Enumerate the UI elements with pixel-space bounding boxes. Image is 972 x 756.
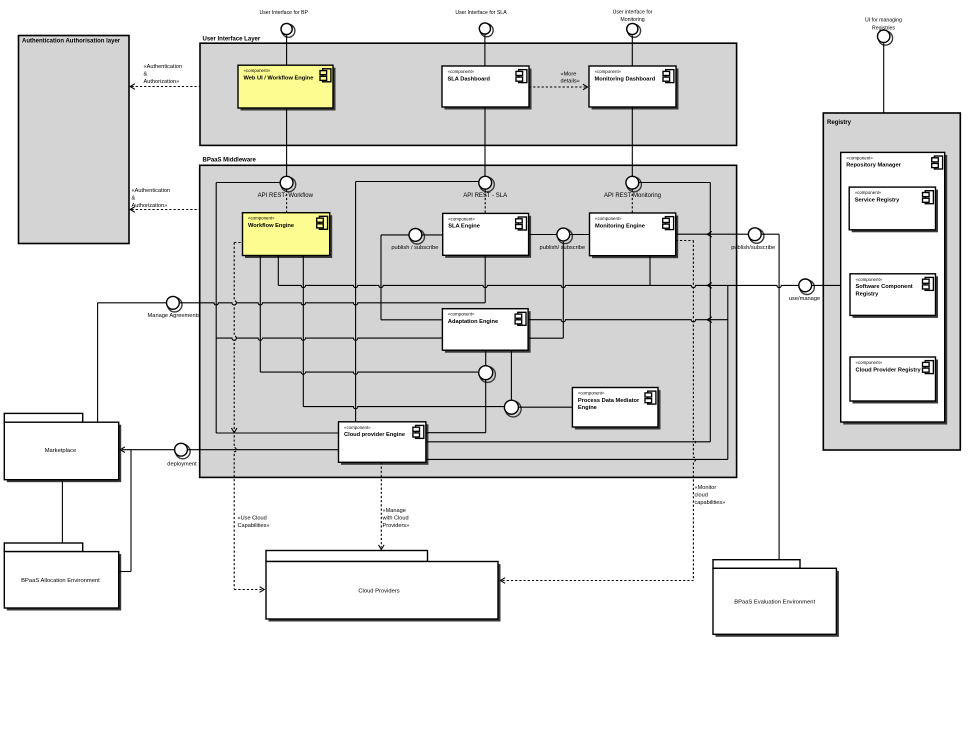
interface ball UI for managing Registries: [878, 30, 893, 45]
wire Web UI to API REST-Workflow: [286, 108, 288, 176]
svg-text:User interface for: User interface for: [613, 10, 653, 16]
svg-text:Authorization»: Authorization»: [144, 79, 180, 85]
wire dashed API REST-SLA to SLA Engine: [484, 190, 486, 214]
svg-text:«component»: «component»: [856, 277, 883, 282]
svg-text:«Authentication: «Authentication: [132, 188, 171, 194]
svg-text:cloud: cloud: [695, 493, 708, 499]
component Process Data Mediator Engine: [572, 388, 660, 430]
component Monitoring Dashboard: [589, 66, 679, 110]
wire publish/subscribe right ball to BPaaS Evaluation Environment: [761, 233, 779, 235]
svg-text:«component»: «component»: [448, 312, 475, 317]
wire deployment branch down to BPaaS Allocation Environment: [130, 450, 132, 572]
wire Monitoring Engine right to publish/subscribe right ball: [676, 233, 749, 235]
wire dashed API REST-Monitoring to Monitoring Engine: [631, 190, 633, 214]
svg-text:User Interface for BP: User Interface for BP: [259, 10, 308, 16]
interface ball Manage Agreements: [167, 296, 183, 312]
wire Monitoring Engine bottom to row A: [649, 256, 651, 286]
wire UI-Monitoring stem: [631, 35, 633, 66]
wire UI-Registries stem: [883, 43, 885, 113]
interface ball API REST- Workflow: [280, 176, 296, 192]
wire dashed Cloud provider Engine Manage with Cloud Providers: [380, 462, 382, 547]
component Cloud Provider Registry: [850, 357, 938, 404]
svg-text:SLA Engine: SLA Engine: [448, 224, 480, 230]
svg-text:BPaaS Evaluation Environment: BPaaS Evaluation Environment: [734, 600, 815, 606]
wire SLA Dashboard to API REST-SLA: [484, 107, 486, 176]
wire dashed Workflow Engine Use Cloud Capabilities: [234, 242, 242, 244]
wire branch to Adaptation Engine left (from x216): [216, 338, 442, 340]
svg-text:Capabilities»: Capabilities»: [238, 523, 270, 529]
svg-text:«More: «More: [561, 72, 577, 78]
package Marketplace: [4, 413, 121, 482]
interface ball publish / subscribe left: [409, 229, 425, 245]
component Workflow Engine: [243, 213, 333, 258]
wire pub-sub-left ball to SLA Engine: [422, 234, 443, 236]
interface ball API REST-Monitoring: [626, 176, 642, 192]
svg-text:Registry: Registry: [856, 291, 880, 297]
svg-text:with Cloud: with Cloud: [382, 516, 409, 522]
svg-text:Workflow Engine: Workflow Engine: [248, 223, 294, 229]
svg-text:«component»: «component»: [344, 425, 371, 430]
svg-text:UI for managing: UI for managing: [865, 18, 902, 24]
svg-text:«component»: «component»: [595, 216, 622, 221]
svg-text:details»: details»: [561, 79, 580, 85]
wire adaptation ball down to Cloud provider Engine right: [485, 380, 487, 433]
wire dashed Monitoring Engine Monitor cloud capabilities: [676, 240, 694, 242]
wire row A Workflow Engine to use/manage: [277, 256, 279, 286]
svg-text:«component»: «component»: [578, 391, 605, 396]
svg-text:«component»: «component»: [595, 69, 622, 74]
svg-text:Software Component: Software Component: [856, 284, 913, 290]
package BPaaS Evaluation Environment: [713, 560, 839, 637]
wire deployment ball left to Marketplace with arrow: [122, 449, 175, 451]
svg-text:«Manage: «Manage: [383, 508, 406, 514]
interface ball UI for SLA: [479, 23, 493, 37]
wire branch x381 pub-sub-left down to Adaptation Engine left: [380, 235, 382, 320]
interface ball left of Process Data Mediator Engine: [510, 350, 512, 399]
svg-text:Authorization»: Authorization»: [132, 203, 168, 209]
wire SLA Engine to pub-sub-mid ball: [529, 234, 557, 236]
container Registry: [823, 113, 960, 450]
interface ball adaptation lower ball: [479, 366, 496, 383]
svg-text:Providers»: Providers»: [383, 523, 410, 529]
svg-text:Marketplace: Marketplace: [45, 448, 77, 454]
wire Marketplace to BPaaS Allocation Environment: [61, 480, 63, 543]
interface ball API REST - SLA: [479, 176, 495, 192]
svg-text:Authentication Authorisation l: Authentication Authorisation layer: [22, 39, 121, 45]
wire API REST-Workflow to Cloud provider Engine (left path): [216, 182, 280, 184]
svg-text:SLA Dashboard: SLA Dashboard: [448, 76, 491, 82]
component SLA Engine: [443, 213, 531, 257]
svg-text:«component»: «component»: [448, 69, 475, 74]
svg-text:«component»: «component»: [856, 360, 883, 365]
wire UI-BP stem: [286, 35, 288, 65]
svg-text:publish / subscribe: publish / subscribe: [391, 245, 438, 251]
wire UI-SLA stem: [484, 35, 486, 66]
interface ball UI for BP: [281, 23, 295, 37]
svg-text:Monitoring Dashboard: Monitoring Dashboard: [595, 76, 656, 82]
wire mediator ball to Process Data Mediator Engine: [519, 406, 573, 408]
wire dashed More details dependency: [529, 86, 586, 88]
svg-text:publish/ subscribe: publish/ subscribe: [540, 245, 586, 251]
svg-text:deployment: deployment: [167, 462, 197, 468]
wire API REST - SLA to Cloud provider Engine top: [356, 181, 479, 183]
wire dashed API REST-Workflow to Workflow Engine: [286, 190, 288, 213]
package Cloud Providers: [266, 551, 501, 622]
wire dashed auth dependency lower: [132, 209, 200, 211]
interface ball publish/subscribe right: [748, 228, 764, 244]
wire dashed auth dependency upper: [132, 86, 200, 88]
svg-text:Monitoring: Monitoring: [620, 17, 644, 23]
svg-text:API REST- Workflow: API REST- Workflow: [258, 193, 314, 199]
wire API REST-Monitoring to Cloud provider Engine (right path): [639, 182, 711, 184]
component Software Component Registry: [850, 274, 938, 318]
wire Adaptation Engine right to x727 vertical (row D): [528, 320, 728, 322]
svg-text:BPaaS Allocation Environment: BPaaS Allocation Environment: [21, 578, 100, 584]
svg-text:«Use Cloud: «Use Cloud: [238, 516, 267, 522]
wire pub-sub-left ball left segment: [381, 234, 409, 236]
svg-text:User Interface Layer: User Interface Layer: [203, 37, 261, 43]
package BPaaS Allocation Environment: [4, 543, 121, 611]
component Cloud provider Engine: [339, 422, 429, 465]
container Authentication Authorisation layer: [19, 36, 130, 244]
svg-text:Service Registry: Service Registry: [855, 197, 900, 203]
svg-text:publish/subscribe: publish/subscribe: [731, 245, 775, 251]
wire use/manage ball to Repository Manager: [812, 284, 841, 286]
wire pub-sub-mid ball to Monitoring Engine: [570, 234, 590, 236]
svg-text:use/manage: use/manage: [789, 296, 820, 302]
interface ball deployment: [175, 443, 191, 459]
interface ball use/manage: [799, 279, 815, 295]
interface ball mediator ball: [504, 400, 521, 417]
component Web UI / Workflow Engine U1: [238, 65, 336, 110]
svg-text:Monitoring Engine: Monitoring Engine: [595, 223, 645, 229]
svg-text:capabilities»: capabilities»: [695, 500, 726, 506]
wire Manage Agreements ball left to Marketplace: [98, 302, 167, 304]
component Adaptation Engine: [442, 309, 530, 353]
component Repository Manager: [841, 152, 948, 424]
svg-text:Engine: Engine: [578, 405, 597, 411]
svg-text:&: &: [144, 72, 148, 78]
svg-text:BPaaS Middleware: BPaaS Middleware: [203, 158, 257, 164]
wire Workflow Engine bottom to mediator ball (x303): [302, 256, 304, 407]
wire row B Manage Agreements to SLA Engine: [179, 303, 485, 305]
svg-text:User Interface for SLA: User Interface for SLA: [455, 10, 507, 16]
component Monitoring Engine: [590, 213, 679, 258]
svg-text:«component»: «component»: [248, 216, 275, 221]
wire deployment ball to Cloud provider Engine: [188, 449, 339, 451]
svg-text:Adaptation Engine: Adaptation Engine: [448, 319, 498, 325]
svg-text:Cloud provider Engine: Cloud provider Engine: [344, 432, 405, 438]
svg-text:«component»: «component»: [855, 190, 882, 195]
component SLA Dashboard: [442, 66, 532, 110]
svg-text:&: &: [132, 196, 136, 202]
interface ball below Adaptation Engine: [485, 350, 487, 365]
svg-text:Manage Agreements: Manage Agreements: [148, 313, 201, 319]
svg-text:Repository Manager: Repository Manager: [846, 163, 901, 169]
wire pub-sub-mid down to Adaptation Engine right: [562, 242, 564, 338]
svg-text:Cloud Providers: Cloud Providers: [358, 589, 399, 595]
svg-text:«Authentication: «Authentication: [144, 64, 183, 70]
wire row A branch down x727 to Cloud provider Engine right: [727, 285, 729, 459]
svg-text:«component»: «component»: [244, 68, 271, 73]
interface ball UI for Monitoring: [627, 23, 641, 37]
svg-text:Registry: Registry: [827, 120, 852, 126]
svg-text:Cloud Provider Registry: Cloud Provider Registry: [856, 367, 922, 373]
container User Interface Layer: [200, 37, 737, 146]
svg-text:«Monitor: «Monitor: [695, 485, 717, 491]
wire Workflow Engine bottom to adaptation ball (x260): [259, 256, 261, 373]
svg-text:«component»: «component»: [448, 216, 475, 221]
component Service Registry: [849, 187, 938, 232]
svg-text:Process Data Mediator: Process Data Mediator: [578, 398, 640, 404]
svg-text:Web UI / Workflow Engine: Web UI / Workflow Engine: [244, 76, 314, 82]
container BPaaS Middleware: [200, 158, 737, 478]
wire Monitoring Dashboard to API REST-Monitoring: [631, 107, 633, 176]
interface ball publish / subscribe mid: [557, 228, 573, 244]
svg-text:«component»: «component»: [846, 155, 873, 160]
